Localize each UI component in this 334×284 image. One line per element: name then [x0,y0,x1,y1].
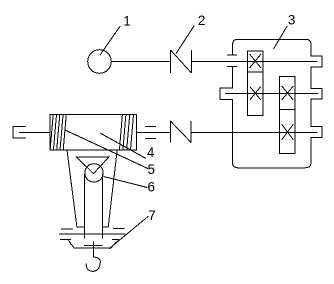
rope winding right band [119,115,133,151]
rope right leg [103,150,118,227]
motor M1 (circle) [88,50,112,74]
crosshead bar [59,233,126,235]
output shaft: coupling to gearbox [191,132,317,134]
trough (hook casing) [68,240,118,248]
rope winding left band [50,115,66,151]
svg-text:2: 2 [198,13,206,28]
gear column B (rect with divider) [279,77,295,154]
pulley 6 (circle) [85,164,103,182]
leader line 6 [104,177,148,188]
bearing X A1 [250,54,262,68]
bearing X B1 [282,86,294,100]
block frame vertical right [102,174,104,239]
rope left leg [67,150,84,227]
gear column A (rect with divider) [247,51,263,116]
coupling (lower) [170,121,191,143]
output shaft: drum to coupling [137,132,171,134]
leader line 7 [109,216,148,249]
coupling M2 (upper) [171,50,192,73]
input shaft through gearbox [192,61,318,63]
svg-text:4: 4 [147,145,155,160]
svg-text:5: 5 [148,162,156,177]
drum right bearing marks [145,125,156,127]
svg-text:1: 1 [123,14,131,29]
shaft: motor to coupling [111,61,170,63]
svg-text:6: 6 [148,180,156,195]
block frame vertical left [83,174,85,239]
wall crossing caps (input shaft) [227,54,237,56]
leader line 4 [100,133,146,159]
svg-text:7: 7 [148,208,156,223]
leader line 2 [176,26,194,54]
svg-text:3: 3 [288,13,296,28]
bearing X A2 [250,87,261,101]
leader line 5 [65,130,148,169]
crosshead dash row D [60,238,120,240]
intermediate shaft [225,93,319,95]
crosshead dash row B [61,228,125,230]
drum 4 (rect) [50,115,137,151]
leader line 1 [100,26,121,56]
leader line 3 [274,26,288,49]
bearing X B2 [282,124,294,140]
suspension triangle [77,157,110,174]
gearbox housing 3 [220,39,322,168]
left pedestal bracket [13,126,26,138]
hook 7 [86,242,100,272]
middle dash [84,244,103,246]
output shaft: bracket to drum [19,132,50,134]
